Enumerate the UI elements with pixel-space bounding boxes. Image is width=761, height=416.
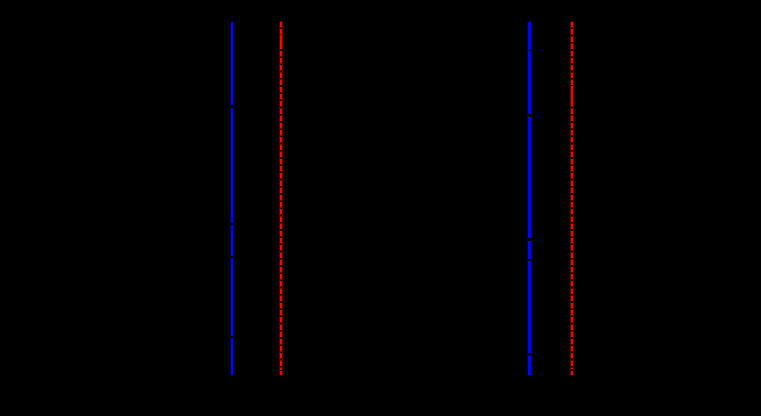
panel 1 blue vertical line (axvline, two overlapping dashed chains => near-solid) xyxy=(231,22,234,375)
gap in blue line 1 at y~336 xyxy=(231,336,234,338)
gap in red line 2 at y~370 xyxy=(571,369,573,370)
panel 2 blue vertical line (axvline, two overlapping dashed chains => near-solid) xyxy=(528,22,531,376)
gap in blue line 2 at y~50 xyxy=(529,50,532,52)
gap in red line 1 at y~370 xyxy=(280,370,282,371)
merged long dash in red line 2 at y~86-101 xyxy=(571,86,573,101)
gap in blue line 2 at y~259 xyxy=(528,259,531,261)
gap in blue line 1 at y~106 xyxy=(231,105,234,107)
final dash of red line 1 reaching bottom xyxy=(280,371,282,375)
gap in blue line 2 at y~239 xyxy=(528,238,531,241)
gap in blue line 1 at y~224 xyxy=(231,223,234,225)
gap in blue line 1 at y~256 xyxy=(231,256,234,258)
final dash of red line 2 reaching bottom xyxy=(571,371,573,375)
panel 1 red dashed vertical line (axvline) xyxy=(280,22,282,376)
panel 2 red dashed vertical line (axvline) xyxy=(571,22,573,375)
merged long dash in red line 1 at y~35-47 xyxy=(280,35,282,47)
gap in blue line 2 at y~354 xyxy=(528,353,531,356)
gap in blue line 2 at y~115 xyxy=(528,114,531,117)
